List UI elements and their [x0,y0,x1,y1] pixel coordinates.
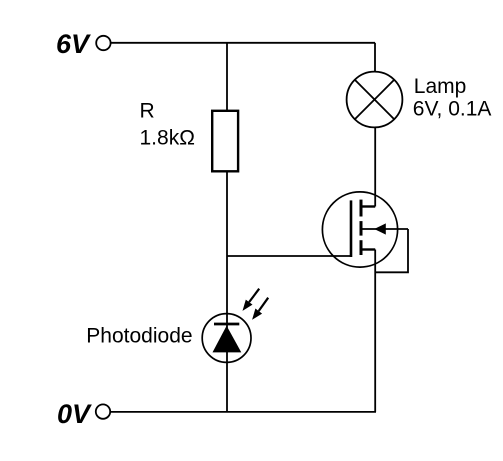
photodiode anode triangle [213,326,242,353]
svg-text:R: R [140,100,155,123]
lamp cross stroke 2 [355,80,394,119]
svg-text:0V: 0V [57,399,92,429]
transistor Q1 drain lead [361,205,375,207]
transistor Q1 channel dash source [360,240,363,255]
photodiode light arrow 2 [252,298,268,320]
svg-text:6V, 0.1A: 6V, 0.1A [413,98,492,121]
node 6V terminal [96,36,110,50]
wire resistor bottom to gate junction [226,172,228,257]
lamp cross stroke 1 [355,80,394,119]
transistor Q1 source lead [361,248,375,250]
resistor R1 body [212,111,238,172]
transistor Q1 channel dash body [360,221,363,236]
node 0V terminal [96,404,110,418]
transistor Q1 body arrow [374,223,386,234]
photodiode cathode bar [214,323,239,326]
wire lamp to MOSFET drain [374,127,376,206]
svg-text:6V: 6V [56,29,91,59]
wire top 6V rail [111,42,375,44]
transistor Q1 body lead [363,228,409,230]
svg-text:Photodiode: Photodiode [86,324,192,347]
svg-text:Lamp: Lamp [414,75,467,98]
transistor Q1 gate bar [350,200,353,257]
wire 6V rail drop to lamp [374,43,376,72]
wire MOSFET source to 0V rail [374,250,376,413]
wire 6V rail to resistor top [226,43,228,111]
wire gate junction through photodiode to 0V rail [226,256,228,412]
wire body-source tie [375,229,408,272]
transistor Q1 channel dash drain [360,200,363,217]
svg-text:1.8kΩ: 1.8kΩ [140,127,195,150]
wire bottom 0V rail [110,411,376,413]
wire gate lead horizontal [227,255,350,257]
lamp circle [347,72,403,128]
photodiode D1 envelope circle [202,314,251,363]
transistor Q1 MOSFET envelope circle [322,192,397,267]
photodiode light arrow 1 [243,289,260,311]
